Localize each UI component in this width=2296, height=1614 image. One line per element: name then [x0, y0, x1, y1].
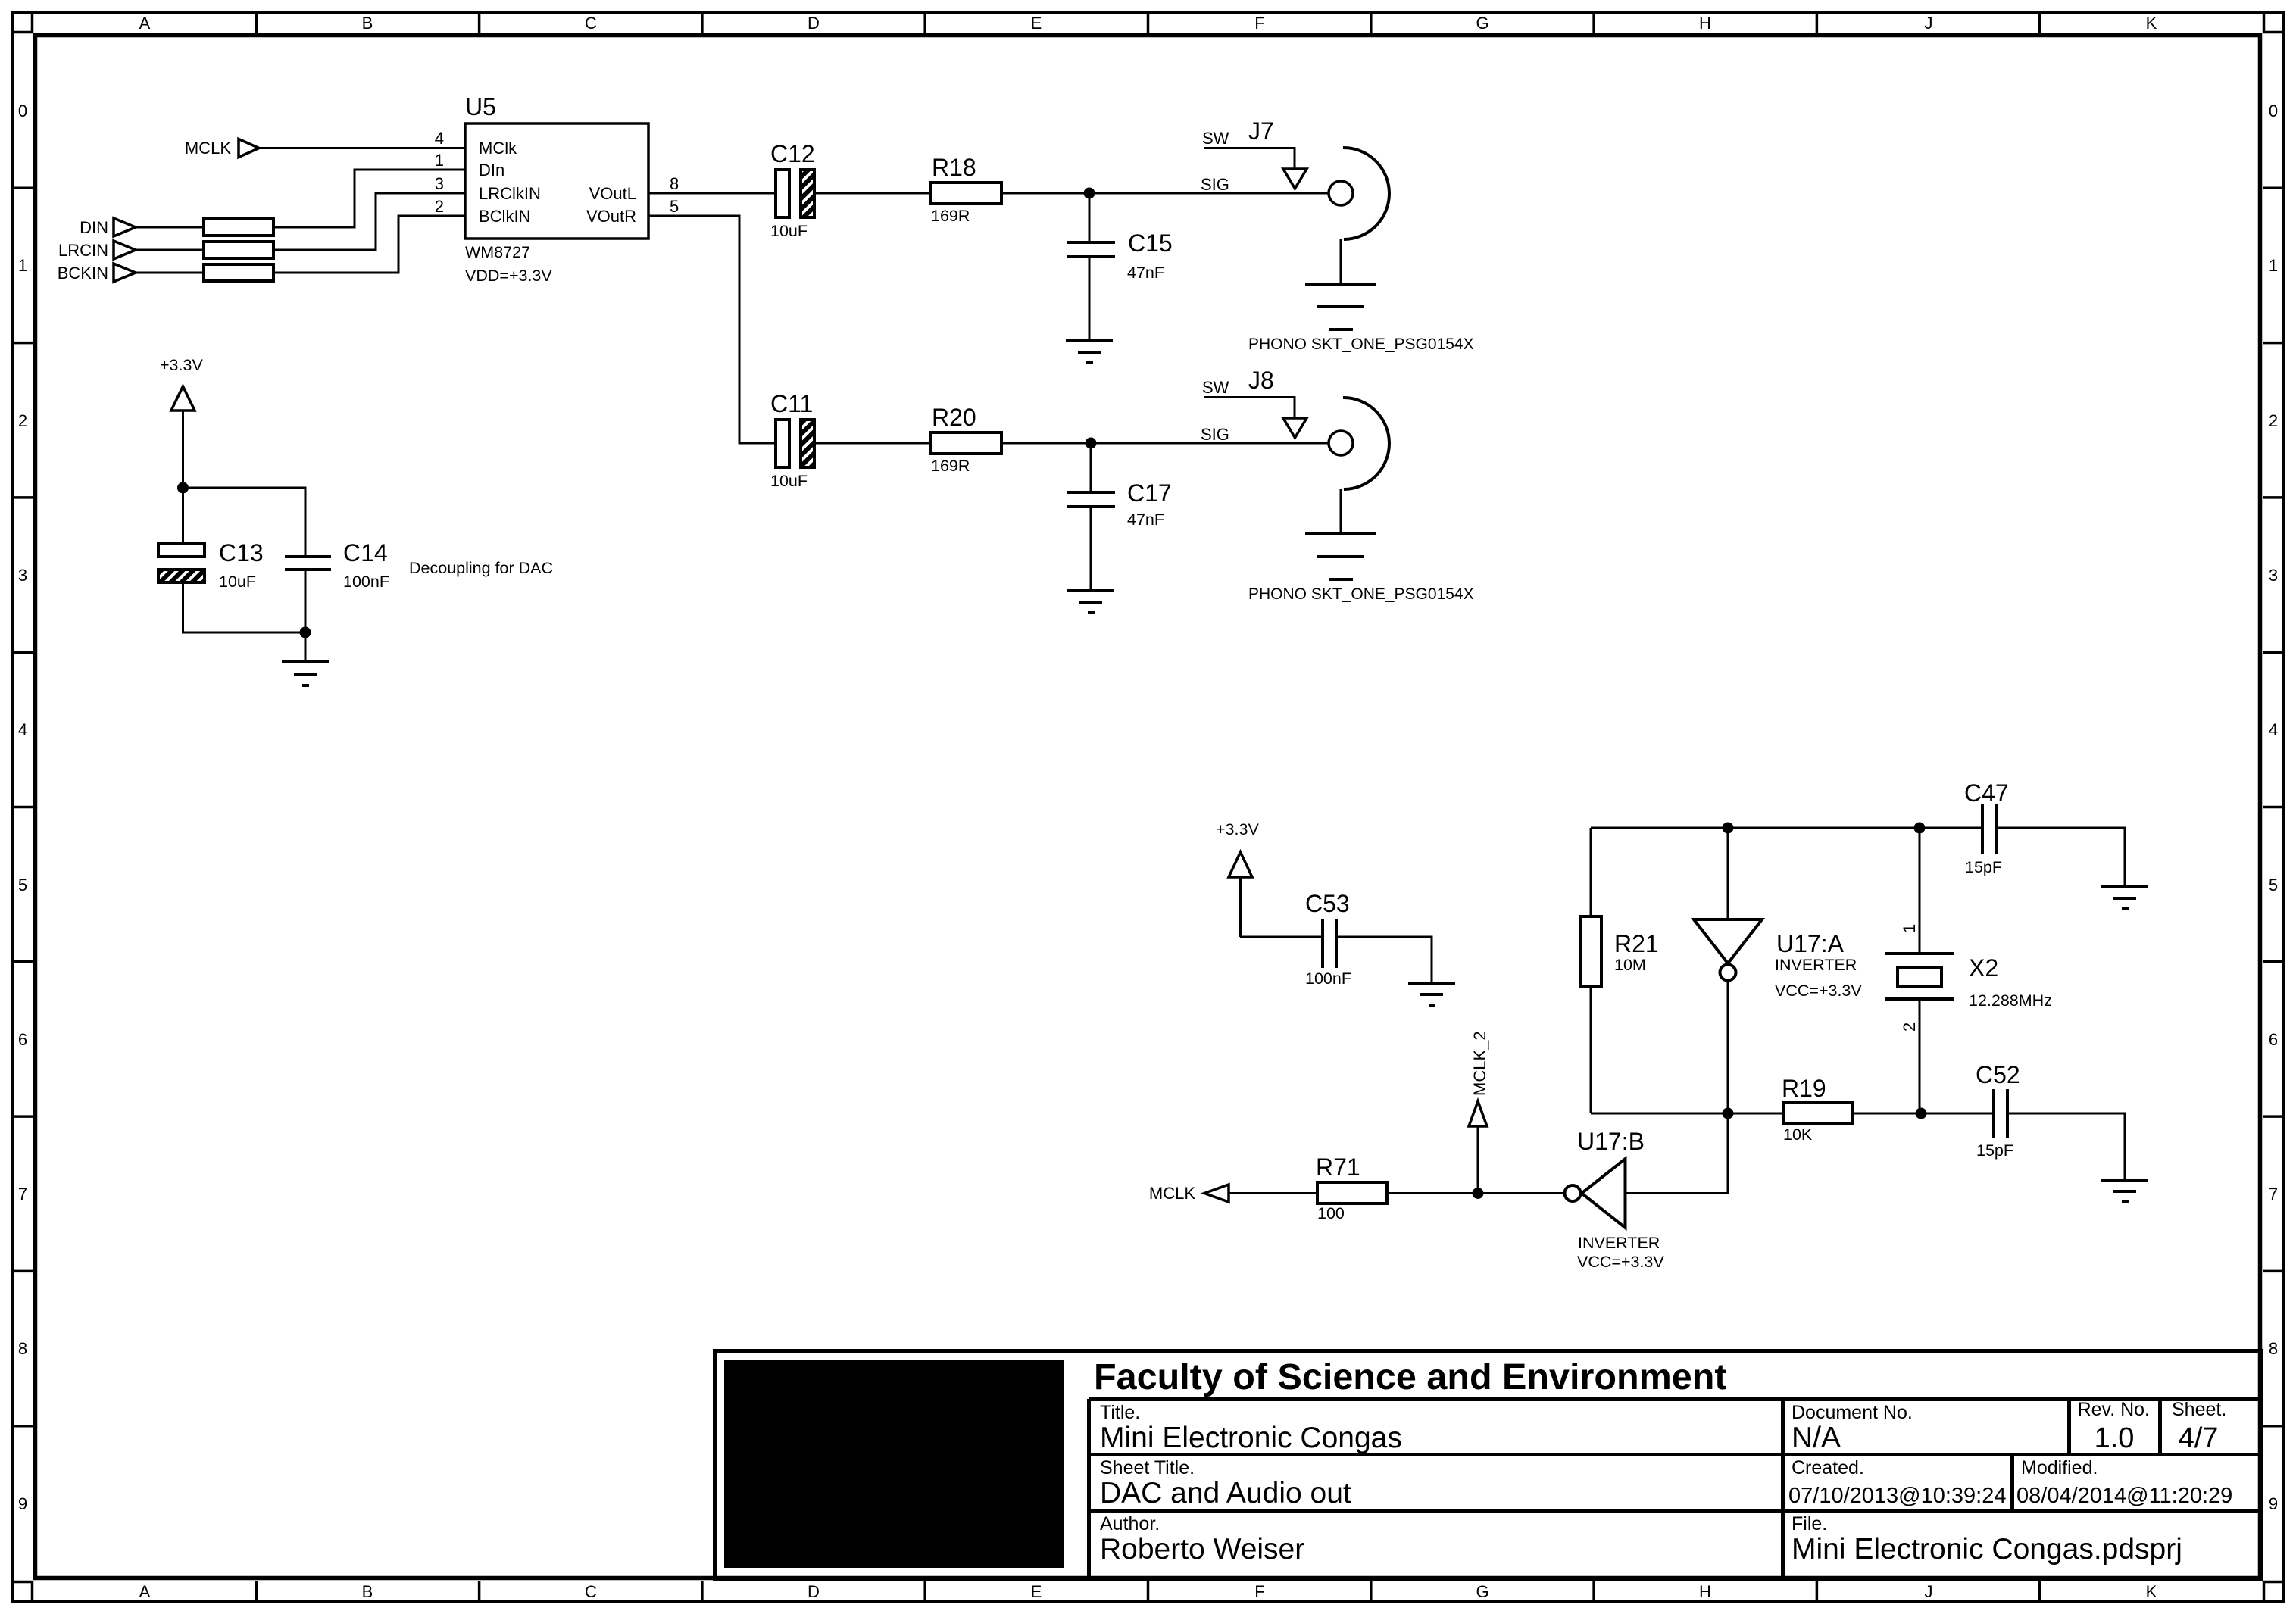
frame column ticks top [256, 11, 2039, 33]
svg-text:E: E [1031, 14, 1042, 33]
title block File field [1792, 1513, 2182, 1566]
svg-text:Sheet Title.: Sheet Title. [1100, 1457, 1195, 1478]
svg-text:1: 1 [18, 256, 27, 275]
resistor pack box LRCIN [136, 242, 273, 258]
svg-text:VCC=+3.3V: VCC=+3.3V [1577, 1253, 1664, 1271]
resistor R19 10K [1782, 1075, 1853, 1144]
svg-text:07/10/2013@10:39:24: 07/10/2013@10:39:24 [1788, 1484, 2006, 1508]
svg-text:BCKIN: BCKIN [58, 264, 108, 283]
svg-text:10uF: 10uF [770, 222, 808, 240]
svg-text:PHONO SKT_ONE_PSG0154X: PHONO SKT_ONE_PSG0154X [1248, 585, 1474, 603]
label SW of J7 [1202, 129, 1307, 189]
title block Sheet Title field [1100, 1457, 1351, 1509]
svg-text:100nF: 100nF [343, 573, 389, 591]
svg-text:2: 2 [1900, 1022, 1919, 1032]
svg-text:E: E [1031, 1582, 1042, 1601]
ground below C47 [2101, 887, 2148, 909]
wire rail to R21 [1590, 828, 1592, 916]
svg-text:DIn: DIn [479, 161, 504, 180]
frame row ticks left [11, 188, 33, 1425]
svg-text:6: 6 [18, 1030, 27, 1049]
svg-text:SIG: SIG [1201, 425, 1229, 444]
svg-text:MClk: MClk [479, 139, 517, 158]
svg-text:Rev. No.: Rev. No. [2078, 1399, 2150, 1420]
title block Document No field [1792, 1402, 1913, 1454]
inverter U17:A [1694, 828, 1862, 1113]
svg-text:Faculty of Science and Environ: Faculty of Science and Environment [1094, 1356, 1726, 1397]
svg-text:N/A: N/A [1792, 1422, 1841, 1454]
svg-text:H: H [1699, 1582, 1711, 1601]
wire C47 to ground [1996, 828, 2125, 886]
svg-text:J7: J7 [1248, 117, 1274, 145]
svg-text:5: 5 [2269, 876, 2278, 894]
wire C13 to ground rail [183, 582, 306, 632]
wire C52 to ground [2007, 1113, 2125, 1179]
svg-text:VOutL: VOutL [589, 184, 636, 203]
frame column letters top [139, 14, 2157, 33]
svg-text:C53: C53 [1305, 890, 1350, 917]
svg-text:U17:B: U17:B [1577, 1128, 1645, 1155]
svg-text:C52: C52 [1976, 1061, 2020, 1088]
svg-text:1: 1 [2269, 256, 2278, 275]
capacitor C15 47nF [1067, 193, 1173, 340]
svg-text:SW: SW [1202, 129, 1229, 148]
svg-text:U5: U5 [465, 93, 496, 120]
power +3.3V (oscillator) [1216, 820, 1259, 937]
wire C12 to R18 [814, 192, 931, 195]
svg-text:G: G [1476, 14, 1488, 33]
svg-text:SIG: SIG [1201, 175, 1229, 194]
wire BCKIN to U5 BClkIN pin 2 [273, 216, 465, 273]
capacitor C47 15pF [1964, 779, 2009, 876]
phono socket J7 [1248, 117, 1389, 283]
frame row ticks right [2263, 188, 2284, 1425]
label SW of J8 [1202, 378, 1307, 438]
wire R20 to J8 [1001, 442, 1329, 445]
svg-text:J: J [1925, 1582, 1933, 1601]
svg-text:8: 8 [2269, 1339, 2278, 1358]
svg-text:C47: C47 [1964, 779, 2009, 807]
title block Sheet field [2172, 1399, 2226, 1454]
svg-text:47nF: 47nF [1127, 264, 1164, 282]
svg-text:D: D [808, 1582, 820, 1601]
title block Author field [1100, 1513, 1304, 1566]
svg-text:VOutR: VOutR [586, 207, 636, 226]
wire MCLK to R71 [1229, 1192, 1317, 1194]
svg-text:3: 3 [2269, 566, 2278, 585]
wire R21 to bottom rail [1590, 987, 1592, 1113]
node junction X2 top [1914, 823, 1926, 834]
wire DIN to U5 DIn pin 1 [273, 170, 465, 227]
ground below C53 [1408, 983, 1455, 1005]
svg-text:12.288MHz: 12.288MHz [1969, 991, 2052, 1010]
svg-text:47nF: 47nF [1127, 510, 1164, 529]
resistor pack box BCKIN [136, 264, 273, 281]
svg-text:R71: R71 [1316, 1154, 1360, 1181]
ground below C15 [1066, 341, 1113, 363]
svg-text:4: 4 [2269, 720, 2278, 739]
resistor pack box DIN [136, 219, 273, 236]
svg-text:R19: R19 [1782, 1075, 1826, 1102]
svg-text:15pF: 15pF [1965, 858, 2002, 876]
wire MCLK to U5 pin 4 [259, 147, 465, 149]
svg-text:9: 9 [18, 1494, 27, 1513]
svg-text:10K: 10K [1783, 1125, 1813, 1144]
svg-text:A: A [139, 14, 151, 33]
svg-text:0: 0 [2269, 101, 2278, 120]
svg-text:100: 100 [1317, 1204, 1345, 1222]
bottom rail wire [1591, 1113, 1783, 1115]
svg-text:R21: R21 [1614, 930, 1659, 957]
svg-text:C13: C13 [219, 539, 264, 567]
svg-text:DAC and Audio out: DAC and Audio out [1100, 1477, 1351, 1509]
svg-text:Title.: Title. [1100, 1402, 1140, 1423]
svg-text:C: C [585, 1582, 597, 1601]
svg-text:C12: C12 [770, 140, 815, 167]
svg-text:DIN: DIN [80, 218, 108, 237]
svg-text:A: A [139, 1582, 151, 1601]
svg-text:7: 7 [2269, 1185, 2278, 1203]
title block outer border [715, 1351, 2261, 1579]
svg-text:C: C [585, 14, 597, 33]
terminal MCLK (output) [1149, 1184, 1229, 1203]
svg-text:Mini Electronic Congas: Mini Electronic Congas [1100, 1422, 1402, 1454]
svg-text:2: 2 [435, 197, 444, 216]
svg-text:4: 4 [18, 720, 27, 739]
wire +3.3V to C14 [183, 488, 306, 557]
svg-text:BClkIN: BClkIN [479, 207, 530, 226]
ground below C52 [2101, 1180, 2148, 1202]
svg-text:K: K [2146, 1582, 2157, 1601]
svg-text:8: 8 [18, 1339, 27, 1358]
svg-text:Decoupling for DAC: Decoupling for DAC [409, 559, 553, 577]
crystal X2 12.288MHz [1885, 828, 2052, 1113]
svg-text:7: 7 [18, 1185, 27, 1203]
svg-text:4/7: 4/7 [2179, 1422, 2219, 1454]
wire C53 to ground [1336, 937, 1432, 982]
wire R18 to J7 [1001, 192, 1329, 195]
phono socket J8 [1248, 367, 1389, 533]
svg-text:F: F [1254, 1582, 1264, 1601]
capacitor C11 10uF (polarised) [770, 390, 814, 490]
wire VOutL to C12 [648, 192, 776, 195]
svg-text:LRCIN: LRCIN [58, 241, 108, 260]
node junction bottom rail U17 [1723, 1108, 1734, 1119]
svg-text:X2: X2 [1969, 954, 1998, 982]
terminal BCKIN (input) [58, 264, 136, 283]
svg-text:D: D [808, 14, 820, 33]
title block Modified field [2016, 1457, 2232, 1508]
svg-text:C15: C15 [1128, 229, 1173, 257]
op-amp U5 DAC WM8727 [465, 93, 648, 285]
ground below C13 C14 [282, 662, 329, 685]
node junction C17 [1086, 438, 1097, 449]
svg-text:R18: R18 [932, 154, 976, 181]
svg-text:8: 8 [670, 174, 679, 193]
svg-text:MCLK: MCLK [1149, 1184, 1195, 1203]
frame row numbers right [2269, 101, 2278, 1513]
svg-text:B: B [362, 1582, 373, 1601]
capacitor C52 15pF [1976, 1061, 2020, 1160]
capacitor C53 100nF [1305, 890, 1351, 988]
svg-text:VDD=+3.3V: VDD=+3.3V [465, 267, 552, 285]
svg-text:10M: 10M [1614, 956, 1646, 974]
svg-text:08/04/2014@11:20:29: 08/04/2014@11:20:29 [2016, 1484, 2232, 1508]
resistor R20 169R [931, 404, 1001, 475]
wire C11 to R20 [814, 442, 931, 445]
svg-text:169R: 169R [931, 207, 970, 225]
node junction C15 [1084, 188, 1095, 199]
wire U17:B input from feedback rail [1626, 1113, 1729, 1194]
svg-text:10uF: 10uF [770, 472, 808, 490]
svg-text:5: 5 [18, 876, 27, 894]
wire R71 to U17:B [1387, 1192, 1563, 1194]
svg-text:C14: C14 [343, 539, 388, 567]
ground below C17 [1067, 591, 1114, 613]
svg-text:B: B [362, 14, 373, 33]
node junction X2 bottom [1916, 1108, 1927, 1119]
resistor R71 100 [1316, 1154, 1387, 1222]
svg-text:SW: SW [1202, 378, 1229, 397]
svg-text:R20: R20 [932, 404, 976, 431]
svg-text:1: 1 [1900, 924, 1919, 933]
resistor R21 10M [1580, 916, 1659, 987]
svg-text:0: 0 [18, 101, 27, 120]
svg-text:J8: J8 [1248, 367, 1274, 394]
svg-text:J: J [1925, 14, 1933, 33]
top rail wire [1591, 827, 1982, 829]
svg-text:WM8727: WM8727 [465, 243, 530, 261]
terminal DIN (input) [80, 218, 136, 237]
svg-text:Author.: Author. [1100, 1513, 1160, 1534]
node junction U17:A top [1723, 823, 1734, 834]
title block Rev No field [2078, 1399, 2150, 1454]
svg-text:4: 4 [435, 129, 444, 148]
svg-text:2: 2 [18, 411, 27, 430]
svg-text:3: 3 [435, 174, 444, 193]
svg-text:+3.3V: +3.3V [1216, 820, 1259, 838]
node junction MCLK_2 [1473, 1188, 1484, 1199]
capacitor C14 100nF [285, 539, 389, 662]
wire VOutR to C11 [648, 216, 776, 443]
title block Created field [1788, 1457, 2006, 1508]
svg-text:+3.3V: +3.3V [160, 356, 203, 374]
capacitor C12 10uF (polarised) [770, 140, 815, 240]
svg-text:H: H [1699, 14, 1711, 33]
title block dividers [1089, 1399, 2260, 1578]
frame column letters bottom [139, 1582, 2157, 1601]
svg-text:G: G [1476, 1582, 1488, 1601]
svg-text:C11: C11 [770, 390, 813, 417]
svg-text:2: 2 [2269, 411, 2278, 430]
wire R19 to C52 [1853, 1113, 1994, 1115]
terminal LRCIN (input) [58, 241, 136, 260]
node junction ground rail [300, 627, 311, 638]
svg-text:MCLK_2: MCLK_2 [1470, 1031, 1489, 1096]
svg-text:PHONO SKT_ONE_PSG0154X: PHONO SKT_ONE_PSG0154X [1248, 336, 1474, 353]
svg-text:169R: 169R [931, 457, 970, 475]
wire LRCIN to U5 LRClkIN pin 3 [273, 193, 465, 250]
svg-text:15pF: 15pF [1976, 1141, 2013, 1160]
svg-text:K: K [2146, 14, 2157, 33]
svg-text:F: F [1254, 14, 1264, 33]
power +3.3V (decoupling) [160, 356, 203, 544]
ground of J7 [1305, 284, 1376, 329]
capacitor C13 10uF (polarised) [158, 539, 264, 591]
svg-text:1: 1 [435, 151, 444, 170]
title block logo box [724, 1360, 1064, 1568]
svg-text:MCLK: MCLK [185, 139, 231, 158]
frame column ticks bottom [256, 1581, 2039, 1603]
capacitor C17 47nF [1067, 443, 1172, 590]
svg-text:VCC=+3.3V: VCC=+3.3V [1775, 982, 1862, 1000]
svg-text:LRClkIN: LRClkIN [479, 184, 541, 203]
svg-text:6: 6 [2269, 1030, 2278, 1049]
title block Title field [1100, 1402, 1402, 1454]
svg-text:1.0: 1.0 [2095, 1422, 2135, 1454]
svg-text:9: 9 [2269, 1494, 2278, 1513]
svg-text:Document No.: Document No. [1792, 1402, 1913, 1423]
inverter U17:B [1565, 1128, 1665, 1271]
svg-text:Roberto Weiser: Roberto Weiser [1100, 1533, 1304, 1566]
svg-text:INVERTER: INVERTER [1578, 1234, 1660, 1252]
node junction at +3.3V [177, 482, 189, 494]
frame row numbers left [18, 101, 27, 1513]
resistor R18 169R [931, 154, 1001, 225]
svg-text:Sheet.: Sheet. [2172, 1399, 2226, 1420]
svg-text:U17:A: U17:A [1776, 930, 1845, 957]
svg-text:3: 3 [18, 566, 27, 585]
svg-text:100nF: 100nF [1305, 969, 1351, 988]
svg-text:Modified.: Modified. [2021, 1457, 2098, 1478]
ground of J8 [1305, 534, 1376, 579]
svg-text:Mini Electronic Congas.pdsprj: Mini Electronic Congas.pdsprj [1792, 1533, 2182, 1566]
svg-text:5: 5 [670, 197, 679, 216]
svg-text:INVERTER: INVERTER [1775, 956, 1857, 974]
terminal MCLK (input) [185, 139, 259, 158]
wire +3.3V to C53 [1240, 936, 1322, 938]
node MCLK_2 [1469, 1031, 1489, 1193]
svg-text:10uF: 10uF [219, 573, 256, 591]
svg-text:C17: C17 [1127, 479, 1172, 507]
svg-text:File.: File. [1792, 1513, 1827, 1534]
svg-text:Created.: Created. [1792, 1457, 1864, 1478]
